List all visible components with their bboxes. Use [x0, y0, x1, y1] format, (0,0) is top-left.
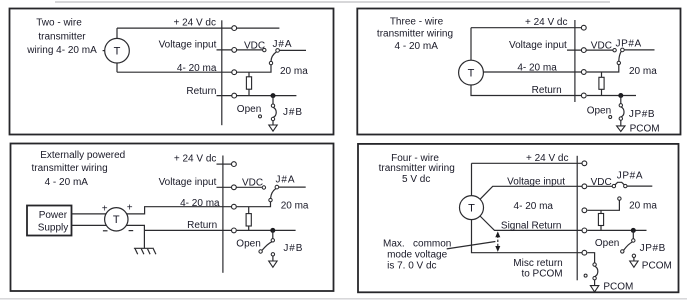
svg-text:Misc return: Misc return [513, 258, 562, 269]
bus (terminal strip) [221, 20, 223, 125]
svg-text:J#A: J#A [273, 39, 293, 50]
wire to ground [272, 256, 274, 261]
wire to ground [620, 120, 622, 126]
ground arrow [269, 261, 277, 267]
leader line to arrow [447, 242, 496, 249]
switch J#A pivot [275, 185, 279, 189]
wire: T2 top to +24V line [470, 28, 472, 61]
wire: 4-20ma to J#A common [237, 65, 271, 72]
VDC contact [263, 48, 266, 51]
svg-text:VDC: VDC [591, 41, 612, 52]
svg-text:J#B: J#B [283, 243, 303, 254]
wire: T4 bottom to misc return line [472, 220, 584, 253]
switch JP#A moving contact [617, 61, 620, 64]
svg-text:Max. common: Max. common [383, 239, 451, 250]
ground arrow PCOM lower [590, 286, 598, 292]
earth ground bar [134, 247, 154, 249]
svg-text:VDC: VDC [591, 177, 612, 188]
wire to ground bottom [594, 280, 596, 286]
svg-text:+: + [127, 203, 133, 214]
wire: junction down to J#B [272, 230, 274, 238]
terminal row4 [232, 93, 237, 98]
switch J#B top contact [271, 104, 274, 107]
terminal row1 [232, 162, 237, 167]
switch J#A moving contact [269, 198, 272, 201]
wire: 4-20ma to JP#A 20ma contact [587, 200, 619, 210]
open contact [609, 116, 612, 119]
terminal row3 [232, 70, 237, 75]
svg-text:20 ma: 20 ma [280, 66, 308, 77]
wire: 4-20 ma line [117, 71, 232, 73]
resistor R2 stub top [601, 72, 603, 77]
svg-text:Power: Power [39, 210, 68, 221]
power supply box [27, 206, 72, 236]
switch JP#B lever (closed) [621, 107, 624, 117]
resistor R1 stub bottom [248, 89, 250, 95]
misc return switch bottom contact [593, 277, 596, 280]
svg-text:transmitter wiring: transmitter wiring [377, 29, 453, 40]
bottom grey rule [0, 298, 687, 300]
svg-text:J#B: J#B [283, 107, 303, 118]
svg-text:PCOM: PCOM [630, 124, 660, 135]
switch J#A lever [271, 52, 276, 62]
switch JP#A 20ma contact [618, 197, 621, 200]
JP#B bottom contact [632, 254, 635, 257]
bus (terminal strip) [574, 20, 576, 102]
svg-text:Voltage input: Voltage input [159, 177, 217, 188]
resistor R4 stub top [600, 210, 602, 213]
svg-text:4- 20 ma: 4- 20 ma [177, 63, 217, 74]
svg-text:VDC: VDC [242, 178, 263, 189]
resistor R2 stub bottom [601, 89, 603, 95]
svg-text:T: T [468, 203, 475, 215]
svg-text:VDC: VDC [244, 40, 265, 51]
junction on return line [270, 228, 275, 233]
svg-text:mode voltage: mode voltage [387, 249, 447, 260]
svg-text:Two - wire: Two - wire [36, 17, 82, 28]
panel 3 frame [11, 144, 334, 292]
svg-text:4- 20 ma: 4- 20 ma [517, 63, 557, 74]
svg-text:+ 24 V dc: + 24 V dc [526, 153, 569, 164]
terminal row4 [232, 228, 237, 233]
svg-text:5 V dc: 5 V dc [402, 174, 430, 185]
wire: voltage input stub to VDC contact [217, 49, 263, 51]
svg-text:Signal Return: Signal Return [501, 220, 562, 231]
svg-text:Open: Open [595, 238, 619, 249]
transmitter T2 [459, 60, 484, 85]
svg-text:Open: Open [237, 104, 261, 115]
switch JP#B bottom contact [619, 117, 622, 120]
switch JP#B top contact [632, 239, 635, 242]
wire: return line after terminal [587, 95, 636, 97]
switch J#A lever [271, 189, 276, 199]
junction on return line [618, 93, 623, 98]
wire: T3 right bottom to return line and ground drop [126, 225, 144, 248]
wire: return line [145, 229, 232, 231]
resistor R4 [598, 214, 603, 226]
svg-text:Return: Return [187, 220, 217, 231]
terminal row2 [582, 184, 587, 189]
svg-text:is 7. 0 V dc: is 7. 0 V dc [387, 260, 436, 271]
svg-text:transmitter wiring: transmitter wiring [32, 163, 108, 174]
svg-text:JP#A: JP#A [616, 39, 642, 50]
wire: PS top to transmitter [72, 213, 107, 215]
VDC contact [612, 184, 615, 187]
switch J#B lever (open, to lower-left) [262, 242, 272, 251]
wire to ground [272, 121, 274, 125]
switch JP#B top contact [619, 104, 622, 107]
svg-text:wiring 4- 20 mA: wiring 4- 20 mA [26, 45, 97, 56]
svg-text:Return: Return [186, 86, 216, 97]
wire: +24 line after terminal [237, 27, 280, 29]
svg-text:Voltage input: Voltage input [159, 40, 217, 51]
ground arrow PCOM upper [630, 261, 638, 267]
terminal row3 [232, 204, 237, 209]
svg-text:JP#A: JP#A [617, 171, 643, 182]
ground arrow [269, 125, 277, 131]
svg-text:20 ma: 20 ma [629, 200, 657, 211]
svg-text:Voltage input: Voltage input [507, 176, 565, 187]
svg-text:+ 24 V dc: + 24 V dc [525, 17, 568, 28]
svg-text:Three - wire: Three - wire [390, 16, 444, 27]
wire: T2 bottom down and return line [471, 85, 583, 96]
svg-text:Return: Return [532, 85, 562, 96]
junction on signal return [631, 228, 636, 233]
resistor R3 stub top [248, 207, 250, 214]
terminal row1 [581, 25, 586, 30]
svg-text:to PCOM: to PCOM [521, 268, 562, 279]
svg-text:4 - 20 mA: 4 - 20 mA [395, 41, 439, 52]
svg-text:transmitter: transmitter [38, 32, 86, 43]
wire: T4 top to +24V line [471, 163, 473, 195]
switch JP#B lever (open, to lower-left) [624, 242, 633, 250]
wire: +24 V dc line [472, 162, 584, 164]
misc return switch top contact [593, 263, 596, 266]
wire: return line [217, 95, 297, 97]
switch JP#A lever [619, 51, 621, 61]
switch J#B bottom contact [271, 117, 274, 120]
resistor R2 [599, 77, 604, 89]
svg-text:J#A: J#A [276, 174, 296, 185]
svg-text:+: + [102, 203, 108, 214]
svg-text:T: T [114, 46, 121, 58]
switch JP#A pivot [621, 48, 625, 52]
switch J#A moving contact [269, 61, 272, 64]
terminal row3 [581, 70, 586, 75]
wire: junction down to JP#B [632, 230, 634, 238]
svg-text:T: T [468, 67, 475, 79]
terminal row2 [581, 48, 586, 53]
svg-text:PCOM: PCOM [603, 282, 633, 293]
wire: return after terminal [237, 229, 296, 231]
VDC contact [262, 186, 265, 189]
wire: voltage input stub to VDC contact [587, 185, 612, 187]
junction on return line [271, 93, 276, 98]
svg-text:+ 24 V dc: + 24 V dc [174, 154, 217, 165]
wire: junction down to J#B [272, 96, 274, 104]
earth ground hatch [135, 249, 156, 255]
resistor R1 stub top [248, 72, 250, 77]
transmitter T4 [460, 196, 484, 220]
svg-text:JP#B: JP#B [629, 109, 655, 120]
wire: junction down to JP#B [620, 96, 622, 104]
wire: +24 V dc line [117, 27, 232, 29]
top grey rule [55, 1, 610, 3]
svg-text:PCOM: PCOM [642, 260, 672, 271]
wire: +24 V dc line [471, 27, 583, 29]
svg-text:20 ma: 20 ma [281, 201, 309, 212]
+24 stub [217, 163, 232, 165]
svg-text:Open: Open [587, 106, 611, 117]
switch J#A output line [279, 186, 306, 188]
terminal row1 [582, 161, 587, 166]
svg-text:transmitter wiring: transmitter wiring [379, 163, 455, 174]
wire: T1 bottom to 4-20ma line [116, 63, 118, 72]
wire: signal return after terminal [587, 229, 646, 231]
resistor R3 [246, 214, 251, 226]
terminal row4 [581, 93, 586, 98]
wire: T1 top to +24V line [116, 28, 118, 38]
transmitter T3 [105, 208, 128, 231]
terminal row1 [232, 26, 237, 31]
double arrow common mode [497, 236, 499, 249]
svg-text:Open: Open [236, 238, 260, 249]
resistor R3 stub bottom [248, 226, 250, 230]
switch J#B top contact [271, 239, 274, 242]
switch J#A pivot [276, 49, 280, 53]
switch JP#A lever (arched to VDC) [615, 182, 624, 184]
svg-text:4 - 20 mA: 4 - 20 mA [45, 177, 89, 188]
misc return open contact [584, 274, 587, 277]
J#B bottom contact [271, 253, 274, 256]
wire: 4-20ma to JP#A common [587, 65, 619, 72]
misc return switch lever (closed) [595, 266, 598, 276]
svg-text:4- 20 ma: 4- 20 ma [180, 198, 220, 209]
svg-text:T: T [113, 214, 120, 226]
wire to ground [633, 258, 635, 262]
svg-text:Supply: Supply [38, 222, 69, 233]
wire: misc return jog [587, 253, 594, 263]
switch JP#A output line [624, 49, 654, 51]
svg-text:JP#B: JP#B [640, 243, 666, 254]
svg-text:20 ma: 20 ma [629, 66, 657, 77]
terminal row3 [582, 208, 587, 213]
panel 2 frame [357, 9, 680, 135]
terminal row4 [582, 228, 587, 233]
switch J#A output line [280, 49, 307, 51]
wire: 4-20 ma line from T2 [483, 71, 582, 73]
switch JP#A output line [627, 185, 652, 187]
transmitter T1 [105, 38, 130, 63]
wire: 4-20ma to J#A common [237, 202, 271, 207]
bus (terminal strip) [222, 156, 224, 273]
open contact [259, 250, 262, 253]
VDC contact [613, 49, 616, 52]
tick at transmitter left [103, 50, 105, 52]
panel 4 frame [358, 144, 679, 292]
wire: voltage input stub to VDC contact [217, 186, 262, 188]
wire: voltage input stub to VDC contact [567, 49, 613, 51]
ground arrow PCOM [617, 126, 625, 132]
resistor R4 stub bottom [600, 226, 602, 231]
wire: T4 diag to signal return line [480, 216, 583, 230]
switch J#B lever (closed) [273, 107, 276, 117]
open contact [621, 250, 624, 253]
wire: T3 right top with jog up to 4-20ma line [127, 207, 232, 214]
wire: PS bottom to transmitter [72, 224, 107, 226]
wire: T4 diag to voltage input line [480, 186, 583, 199]
terminal row2 [232, 185, 237, 190]
svg-text:Externally powered: Externally powered [40, 150, 125, 161]
terminal row2 [232, 48, 237, 53]
switch JP#A pivot [624, 184, 627, 187]
resistor R1 [246, 77, 251, 89]
svg-text:4- 20 ma: 4- 20 ma [514, 201, 554, 212]
bus (terminal strip) [576, 156, 578, 280]
terminal row5 [582, 250, 587, 255]
svg-text:Voltage input: Voltage input [509, 40, 567, 51]
panel 1 frame [10, 9, 334, 135]
svg-text:+ 24 V dc: + 24 V dc [173, 18, 216, 29]
open contact [259, 115, 262, 118]
